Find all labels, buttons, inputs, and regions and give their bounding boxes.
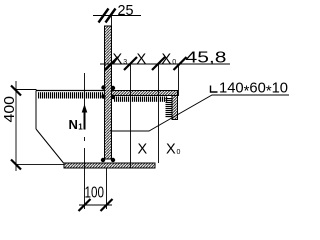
svg-text:1: 1	[78, 123, 83, 132]
svg-text:X: X	[137, 52, 147, 68]
svg-text:X: X	[162, 52, 172, 68]
svg-text:0: 0	[177, 149, 181, 156]
svg-text:25: 25	[118, 2, 134, 19]
svg-text:3: 3	[123, 59, 127, 66]
svg-text:400: 400	[2, 96, 18, 123]
svg-text:0: 0	[172, 59, 176, 66]
svg-text:X: X	[113, 52, 123, 68]
svg-text:100: 100	[85, 185, 105, 202]
svg-text:X: X	[138, 142, 148, 158]
svg-text:X: X	[166, 142, 176, 158]
svg-text:N: N	[69, 117, 78, 132]
svg-text:45,8: 45,8	[186, 50, 227, 67]
